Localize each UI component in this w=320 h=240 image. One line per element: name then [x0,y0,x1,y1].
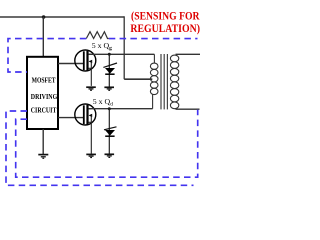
wire gate 1 [58,63,83,65]
resistor R1 (gate charge) [86,32,109,39]
sensing dashed wire outer loop [6,111,194,185]
transformer core [161,54,167,109]
MOSFET driving circuit box U1 [27,57,58,129]
diode D1 [103,54,117,86]
diode D2 [104,109,117,154]
svg-text:DRIVING: DRIVING [31,92,58,101]
wire drain 1 to primary top [88,53,154,55]
transistor Q1 (MOSFET) [75,50,96,86]
ground (D1) [104,87,114,90]
wire drain 2 / primary return [88,108,152,110]
wire rail to driving box [42,17,44,56]
transformer T1 secondary [170,55,178,109]
node junction dot on rail [42,15,46,19]
transistor Q2 (MOSFET) [75,104,96,154]
sensing dashed wire upper right run [109,38,198,40]
svg-text:CIRCUIT: CIRCUIT [31,105,57,114]
svg-text:5 x Qd: 5 x Qd [93,97,113,107]
svg-text:REGULATION): REGULATION) [130,23,200,35]
node dot diode2 tap [108,107,111,110]
sensing dashed wire upper loop [8,39,86,72]
ground (box) [38,155,48,159]
wire secondary top output [176,53,201,55]
sensing dashed wire inner loop [16,110,198,177]
svg-text:(SENSING FOR: (SENSING FOR [131,11,200,23]
svg-text:MOSFET: MOSFET [32,76,56,85]
supply rail wire [0,16,124,18]
wire box bottom to ground [42,129,44,154]
wire gate 2 [58,117,83,119]
wire secondary bottom output [176,108,200,110]
node dot diode1 tap [108,53,111,56]
ground (Q1 source) [86,87,96,90]
svg-text:5 x Qg: 5 x Qg [92,41,112,51]
box label text [31,76,58,115]
ground (D2) [105,154,115,157]
ground (Q2 source) [86,154,96,157]
transformer T1 primary [150,54,158,108]
sensing annotation text [130,11,200,35]
wire center-tap riser [123,16,125,79]
wire center tap [124,78,152,80]
